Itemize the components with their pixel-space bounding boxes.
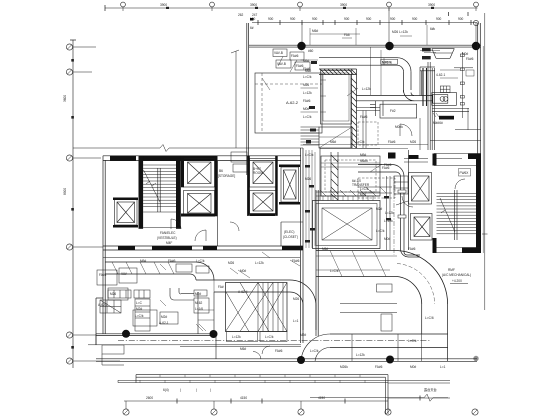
- svg-text:FA#6: FA#6: [375, 365, 383, 369]
- svg-text:(CLOSET): (CLOSET): [283, 235, 298, 239]
- big elbow outer arc: [397, 251, 448, 305]
- grid bubble 2 top: [210, 2, 215, 11]
- duct y250 inner lines: [316, 256, 397, 270]
- equip labels mid: [135, 314, 169, 325]
- svg-text:3600: 3600: [63, 95, 67, 102]
- door arc bottom wall 2: [262, 346, 270, 354]
- top dimension line A: [105, 5, 478, 16]
- room A-62-2 inner dash: [255, 73, 322, 133]
- fan room upper walls: [320, 148, 380, 200]
- door arcs mech right: [400, 124, 413, 207]
- extension vertical x236: [235, 51, 237, 148]
- duct run mid right horizontal: [358, 165, 396, 173]
- east line tick: [482, 233, 488, 235]
- L6 poche: [279, 165, 300, 205]
- svg-text:L=C: L=C: [136, 301, 143, 305]
- svg-text:900: 900: [366, 17, 372, 21]
- bottom duct elbow arcs: [301, 334, 330, 362]
- left end bottom structures: [96, 334, 124, 365]
- pipe run y107: [357, 108, 381, 149]
- RMF text block: [442, 268, 471, 283]
- lower wing grid box 1: [108, 290, 131, 298]
- junction dark marks upper: [309, 61, 317, 109]
- svg-text:L=C/6: L=C/6: [425, 316, 434, 320]
- second duct pair mid: [358, 187, 392, 193]
- duct drop left: [370, 101, 383, 116]
- column dot bottom 2: [210, 330, 218, 338]
- wall x432 right wing: [432, 68, 434, 150]
- svg-text:FAN/ELEC: FAN/ELEC: [160, 231, 176, 235]
- duct run elbow down: [392, 165, 404, 253]
- Z duct lower wing: [170, 288, 194, 300]
- svg-text:#60: #60: [308, 49, 314, 53]
- wall x316: [316, 190, 318, 336]
- elevator L3 poche: [113, 198, 138, 228]
- text smudge right: [433, 121, 443, 125]
- svg-text:M6#k: M6#k: [360, 159, 368, 163]
- svg-text:L=1/6: L=1/6: [195, 307, 203, 311]
- AHU bottom labels: [232, 335, 274, 339]
- svg-text:FA#6: FA#6: [360, 115, 368, 119]
- stair S1 arrow: [144, 170, 161, 202]
- core top wall poche: [110, 156, 216, 161]
- column dot bottom 4: [386, 356, 394, 364]
- FW room line: [434, 165, 476, 167]
- svg-text:L=C/k: L=C/k: [360, 187, 369, 191]
- svg-text:A-62-1: A-62-1: [159, 321, 169, 325]
- duct A hatching: [112, 262, 174, 274]
- dark label in box: [382, 60, 392, 64]
- east core wall x300: [301, 148, 304, 343]
- duct C vertical short: [303, 305, 316, 330]
- box below mech room: [319, 127, 352, 148]
- main bottom wall: [96, 359, 477, 362]
- big elbow inner arc: [397, 277, 422, 305]
- stair S2 poche west top: [433, 154, 437, 166]
- svg-text:FA#6: FA#6: [291, 54, 299, 58]
- vertical duct right: [422, 304, 448, 334]
- stair S1 treads: [143, 165, 176, 207]
- svg-text:247: 247: [252, 13, 258, 17]
- stair S2 treads: [437, 194, 477, 234]
- svg-text:M6#: M6#: [360, 153, 366, 157]
- label 4-62-1: [436, 73, 445, 77]
- core bottom wall: [103, 246, 303, 250]
- duct y250 hatch: [330, 251, 386, 277]
- svg-text:M0#: M0#: [384, 237, 390, 241]
- svg-text:L=12k: L=12k: [356, 353, 365, 357]
- grid bubble 3 bottom: [298, 401, 304, 415]
- svg-text:8900: 8900: [63, 188, 67, 195]
- room line right y129: [455, 129, 481, 131]
- dashed box mid: [358, 122, 378, 145]
- dim text bottom: [146, 396, 325, 400]
- double line y108-111 right: [432, 109, 469, 112]
- duct down from elbow B: [198, 292, 214, 334]
- dark marks left of damper: [422, 48, 431, 59]
- storage room wall: [218, 156, 248, 246]
- bottom duct label: [356, 316, 434, 357]
- extra marks corridor: [384, 196, 391, 221]
- hatched duct band vertical: [351, 69, 357, 148]
- top band scatter marks: [310, 25, 427, 45]
- storage label: [218, 169, 235, 178]
- vertical hatch band fan room: [331, 152, 338, 200]
- annotation ticks left column: [301, 60, 319, 112]
- mech room upper rect: [321, 71, 352, 125]
- upper mech room lines: [321, 163, 380, 167]
- vertical pipe lines left block: [306, 150, 315, 248]
- extra pipe lines right top: [440, 70, 474, 78]
- labels corridor duct: [376, 207, 385, 233]
- extension line y148 with break: [73, 145, 238, 152]
- elec closet walls: [281, 222, 303, 246]
- wall x428: [428, 62, 430, 150]
- stair S2 poche bottom: [462, 248, 481, 254]
- stair S2 poche east: [476, 159, 481, 253]
- svg-text:L=C/k: L=C/k: [135, 314, 144, 318]
- svg-text:6#k: 6#k: [430, 27, 436, 31]
- corridor line y345: [88, 345, 301, 347]
- vertical x468: [467, 108, 469, 130]
- terrace vertical right pair: [386, 375, 389, 414]
- terrace right segment: [388, 381, 450, 384]
- svg-text:L=C/k: L=C/k: [310, 349, 319, 353]
- west wall step: [96, 298, 103, 345]
- east wall building: [478, 23, 481, 253]
- rect loop right duct: [420, 67, 435, 96]
- annotation column left of mech room: [303, 59, 312, 119]
- door arc vestibule: [171, 219, 181, 229]
- AHU bottom boxes: [227, 332, 288, 342]
- boxes right of Z duct: [194, 290, 209, 313]
- long duct y95-101: [357, 96, 433, 101]
- dash-dot line y340: [118, 340, 430, 342]
- grid bubble 5 top: [474, 2, 479, 11]
- vertical line x420: [419, 118, 421, 150]
- dashed rect mid: [358, 178, 395, 198]
- svg-text:L=C/k: L=C/k: [356, 140, 365, 144]
- stair S1 stringer: [158, 168, 160, 212]
- AHU A-62-4 stripes: [258, 283, 283, 332]
- hatched duct band top: [319, 69, 357, 75]
- elevator L4 L5 poche: [247, 156, 277, 216]
- door leaf lines: [171, 219, 206, 241]
- vestibule texts: [157, 231, 177, 245]
- svg-text:FA#6: FA#6: [388, 140, 396, 144]
- ext line y144 mid: [303, 144, 428, 146]
- small boxes lower left of A-62-2: [231, 152, 247, 172]
- grid box above unit: [440, 86, 450, 93]
- svg-text:3900: 3900: [250, 3, 257, 7]
- dimension text row B: [250, 17, 464, 21]
- svg-text:FA#6: FA#6: [292, 259, 300, 263]
- svg-text:M26: M26: [410, 140, 416, 144]
- top band tiny texts: [312, 27, 474, 61]
- svg-text:B6: B6: [219, 169, 223, 173]
- east inner line: [482, 46, 484, 253]
- east terrace line x486: [484, 13, 486, 310]
- svg-text:FA6: FA6: [344, 33, 350, 37]
- equip labels left: [98, 272, 128, 307]
- svg-text:L=C/k: L=C/k: [196, 259, 205, 263]
- svg-text:900: 900: [458, 17, 464, 21]
- vav leader lines: [262, 57, 297, 91]
- gray column dot: [473, 356, 478, 361]
- leader arrows core right: [160, 252, 270, 274]
- room line right y140: [430, 140, 481, 142]
- AHU label: [238, 290, 248, 294]
- FW door arc: [455, 179, 465, 189]
- core top extension line y148: [238, 147, 303, 149]
- lower branch duct: [340, 304, 397, 313]
- svg-text:3900: 3900: [340, 3, 347, 7]
- svg-text:A-62-2: A-62-2: [286, 100, 299, 105]
- svg-text:M6#: M6#: [322, 247, 328, 251]
- column dot top 1: [297, 42, 305, 50]
- bottom duct big: [330, 334, 448, 362]
- svg-text:M2#: M2#: [136, 307, 142, 311]
- grid bubble 2 bottom: [211, 401, 217, 415]
- svg-text:900: 900: [268, 17, 274, 21]
- fan room rect: [313, 201, 381, 249]
- svg-text:6#: 6#: [250, 26, 254, 30]
- elevator L4 shaft: [250, 159, 277, 188]
- vav labels: [274, 49, 314, 68]
- canopy band ticks: [140, 380, 365, 382]
- grid bubble 1 bottom: [123, 401, 129, 415]
- fan coil unit box: [100, 300, 121, 313]
- left dimension ticks: [71, 59, 74, 349]
- dimension tick marks line A: [166, 7, 434, 9]
- box brace diagonal: [319, 127, 352, 148]
- right wing elevator G: [411, 214, 433, 241]
- svg-text:M26: M26: [110, 292, 116, 296]
- grid bubble 3 top: [298, 2, 303, 11]
- svg-text:FA#6: FA#6: [466, 57, 474, 61]
- black bar below: [439, 116, 454, 120]
- elevator L3 small west shaft: [115, 200, 138, 226]
- west wall upper wing: [247, 23, 249, 175]
- svg-text:M4F: M4F: [166, 241, 172, 245]
- dim text row B left part: [238, 13, 258, 17]
- damper ticks duct mid: [396, 190, 408, 218]
- svg-text:M26: M26: [228, 261, 234, 265]
- svg-text:VAV-B: VAV-B: [274, 51, 283, 55]
- boxes labels: [195, 292, 203, 311]
- svg-text:3900: 3900: [160, 3, 167, 7]
- svg-text:L=1: L=1: [293, 319, 299, 323]
- svg-text:RMF: RMF: [448, 268, 455, 272]
- grid bubble C left: [66, 155, 72, 161]
- svg-text:3900: 3900: [428, 3, 435, 7]
- lower wing grid box 2: [134, 290, 150, 298]
- ahu unit right: [432, 93, 457, 106]
- room A-62-2 label: [286, 100, 299, 105]
- room line right y67.8: [454, 67, 473, 69]
- svg-text:2600: 2600: [146, 396, 153, 400]
- top dimension line B: [252, 20, 478, 25]
- column dot bottom 3: [297, 356, 305, 364]
- mech room inner ticks: [321, 80, 327, 112]
- vertical ext line x381: [380, 50, 382, 95]
- terrace outline left: [136, 375, 388, 383]
- svg-text:900: 900: [390, 17, 396, 21]
- column dot top 2: [385, 42, 393, 50]
- terrace line right with break: [310, 394, 448, 401]
- svg-text:(VESTIBULE): (VESTIBULE): [157, 236, 177, 240]
- fan room inner: [322, 208, 372, 240]
- svg-text:M##6#: M##6#: [433, 121, 443, 125]
- room A-62-2: [255, 73, 322, 133]
- core top wall: [103, 156, 301, 161]
- duct stub into right wing: [404, 159, 428, 163]
- mech room inner rect: [323, 73, 349, 121]
- svg-text:M26k: M26k: [340, 365, 348, 369]
- tiny label above wall: [250, 26, 254, 30]
- mid right labels: [360, 159, 416, 251]
- horizontal duct y250-276: [316, 251, 397, 277]
- big box below duct: [380, 104, 417, 118]
- duct run elbow bottom to right: [401, 249, 421, 257]
- svg-text:L=C/k: L=C/k: [305, 153, 314, 157]
- grid bubble 4 bottom: [385, 398, 391, 415]
- svg-text:L=12k: L=12k: [303, 91, 312, 95]
- svg-text:262: 262: [238, 13, 244, 17]
- svg-text:M6#: M6#: [305, 69, 311, 73]
- svg-text:VAV: VAV: [121, 272, 128, 276]
- big box label: [390, 109, 396, 113]
- damper trapezoid right top: [432, 49, 455, 59]
- svg-text:M2#: M2#: [376, 207, 382, 211]
- duct A elbow: [190, 262, 214, 280]
- elevator L5 shaft: [250, 191, 277, 214]
- duct B horizontal: [196, 280, 290, 292]
- transfer duct label: [352, 179, 370, 187]
- ext line y148 right part: [380, 147, 408, 149]
- grid bubble 1 top: [121, 2, 126, 11]
- core west wall: [103, 156, 105, 334]
- canopy band y380: [118, 380, 388, 382]
- svg-text:M6#: M6#: [140, 259, 146, 263]
- terrace label right: [424, 387, 437, 392]
- black box right of fan room: [388, 153, 396, 159]
- grid bubble B left: [66, 69, 72, 75]
- corridor duct verticals mid right: [387, 176, 391, 250]
- stair S2 poche west bottom: [433, 238, 437, 253]
- extension vertical x302: [301, 23, 303, 47]
- FW label box: [459, 169, 471, 177]
- svg-text:M26 L=12k: M26 L=12k: [392, 30, 408, 34]
- grid bubble D left: [66, 244, 72, 250]
- svg-text:L=12k: L=12k: [232, 335, 241, 339]
- equip boxes mid: [133, 310, 178, 326]
- tiny black tick at wall top: [250, 18, 254, 21]
- equip box row left: [97, 268, 137, 300]
- svg-text:900: 900: [312, 17, 318, 21]
- svg-text:): ): [196, 388, 197, 392]
- hatch ticks below: [433, 113, 439, 117]
- bottom dimension line: [124, 396, 450, 404]
- elec closet label: [283, 230, 298, 239]
- dense line bundle left junction: [301, 127, 320, 145]
- box with dark label: [381, 59, 398, 64]
- svg-text:): ): [180, 388, 181, 392]
- junction dark marks: [306, 129, 316, 144]
- svg-text:M2#: M2#: [161, 315, 167, 319]
- svg-text:M6#: M6#: [240, 347, 246, 351]
- svg-text:M26: M26: [305, 177, 311, 181]
- svg-text:(ELEC): (ELEC): [284, 230, 294, 234]
- elevator L1/L2 poche: [181, 156, 218, 217]
- svg-text:F#2: F#2: [390, 109, 396, 113]
- svg-text:M2#: M2#: [300, 333, 306, 337]
- svg-text:4150: 4150: [318, 396, 325, 400]
- svg-text:L=1: L=1: [440, 365, 446, 369]
- elevator L1 shaft: [184, 159, 215, 188]
- stair S2 arrow: [440, 198, 455, 232]
- svg-text:FA#6: FA#6: [275, 349, 283, 353]
- svg-text:L=C/k: L=C/k: [330, 269, 339, 273]
- stair S1 bottom wall: [143, 227, 181, 229]
- svg-text:L=12k: L=12k: [362, 87, 371, 91]
- extension vertical x389: [388, 8, 390, 46]
- elevator L6 shaft far: [281, 167, 299, 202]
- extension tick x236: [231, 50, 239, 53]
- svg-text:6(4): 6(4): [163, 388, 169, 392]
- grid bubble F left: [66, 358, 72, 364]
- leader ticks top right: [420, 51, 440, 53]
- svg-text:M-62: M-62: [195, 301, 202, 305]
- svg-text:L=C/k: L=C/k: [303, 75, 312, 79]
- svg-text:L=12k: L=12k: [255, 261, 264, 265]
- svg-text:M0#k: M0#k: [395, 125, 403, 129]
- svg-text:M26: M26: [360, 193, 366, 197]
- duct A horizontal left: [105, 262, 196, 274]
- svg-text:(A/C MECHANICAL): (A/C MECHANICAL): [442, 273, 471, 277]
- stair S2 top wall: [434, 154, 481, 159]
- svg-text:M6#: M6#: [312, 29, 318, 33]
- svg-text:VAV-B: VAV-B: [277, 62, 286, 66]
- FW label: [460, 171, 470, 175]
- svg-text:M#6#k: M#6#k: [382, 60, 392, 64]
- corridor line below core: [103, 257, 300, 259]
- door arc vestibule 2: [195, 230, 206, 241]
- corridor small boxes: [176, 264, 209, 273]
- AHU A-62-4 diagonals: [226, 283, 288, 332]
- svg-text:): ): [210, 388, 211, 392]
- svg-text:4150: 4150: [240, 396, 247, 400]
- svg-text:900: 900: [412, 17, 418, 21]
- right wing elevator F: [409, 173, 432, 205]
- RMF underline: [450, 283, 468, 285]
- svg-text:L=C/k: L=C/k: [265, 335, 274, 339]
- stair S2 poche top: [468, 154, 481, 160]
- extension vertical x476: [475, 23, 477, 47]
- svg-text:M26: M26: [303, 83, 309, 87]
- tick row between rooms: [323, 196, 373, 201]
- dimension text top row: [160, 3, 435, 7]
- svg-text:[STORAGE]: [STORAGE]: [218, 174, 235, 178]
- svg-text:FA#1: FA#1: [99, 273, 107, 277]
- duct B elbow down: [290, 280, 316, 306]
- svg-text:+4.200: +4.200: [452, 279, 462, 283]
- vertical ext line x370: [370, 47, 372, 95]
- grid bubble E left: [66, 332, 72, 338]
- vav box 1: [273, 49, 310, 70]
- stair S1 east wall poche: [176, 156, 181, 229]
- left extension stubs: [73, 47, 120, 361]
